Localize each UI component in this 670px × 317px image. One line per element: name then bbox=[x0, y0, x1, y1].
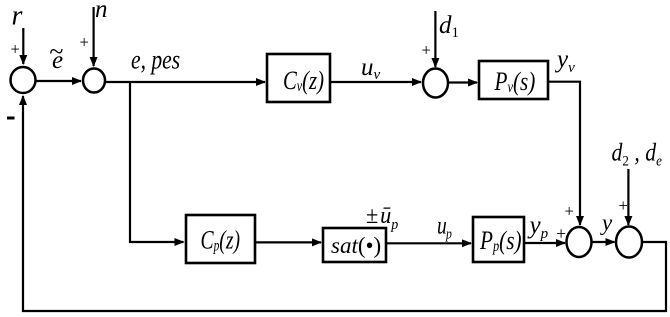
summing junction S1 bbox=[11, 67, 36, 93]
feedback wire from S5 around bottom back up into S1 bbox=[23, 96, 666, 311]
svg-text:Pp(s): Pp(s) bbox=[479, 227, 521, 256]
svg-text:e, pes: e, pes bbox=[131, 45, 180, 75]
wire S1 to S2 bbox=[36, 80, 81, 82]
svg-text:+: + bbox=[556, 224, 566, 244]
svg-text:d2 , de: d2 , de bbox=[612, 139, 662, 170]
wire n input bbox=[92, 7, 94, 66]
summing junction S3 bbox=[423, 69, 448, 98]
svg-text:+: + bbox=[422, 41, 431, 60]
svg-text:+: + bbox=[619, 196, 628, 215]
svg-text:+: + bbox=[80, 33, 89, 52]
wire Pv right then down into S4 bbox=[549, 82, 581, 225]
svg-text:~: ~ bbox=[49, 37, 63, 66]
block Cv bbox=[267, 54, 330, 102]
wire Cv to S3 bbox=[330, 81, 421, 83]
svg-text:r: r bbox=[12, 1, 23, 32]
summing junction S4 bbox=[567, 227, 592, 257]
summing junction S2 bbox=[83, 69, 105, 93]
block Pv bbox=[479, 61, 548, 99]
wire S2 to block Cv (with branch node at x=130) bbox=[105, 81, 265, 83]
block Pp bbox=[473, 217, 524, 262]
block sat bbox=[323, 228, 386, 262]
svg-text:n: n bbox=[95, 0, 108, 23]
svg-text:Cv(z): Cv(z) bbox=[283, 67, 324, 96]
minus sign at S1 (feedback input) bbox=[7, 117, 15, 120]
wire r input bbox=[22, 28, 24, 64]
wire sat to block Pp bbox=[386, 242, 471, 244]
block Cp bbox=[186, 215, 255, 263]
svg-text:+: + bbox=[11, 40, 20, 59]
svg-text:Cp(z): Cp(z) bbox=[201, 226, 241, 256]
svg-text:uv: uv bbox=[361, 54, 381, 83]
svg-text:y: y bbox=[600, 210, 613, 235]
wire Pp to S4 bbox=[524, 242, 565, 244]
svg-text:Pv(s): Pv(s) bbox=[494, 68, 536, 97]
svg-text:sat(•): sat(•) bbox=[331, 233, 381, 258]
wire S3 to block Pv bbox=[448, 81, 477, 83]
svg-text:up: up bbox=[437, 211, 452, 242]
svg-text:d1: d1 bbox=[439, 12, 459, 41]
svg-text:+: + bbox=[565, 202, 574, 221]
wire d2 input bbox=[627, 169, 629, 225]
wire d1 input bbox=[434, 11, 436, 67]
wire branch from e,pes down to block Cp bbox=[130, 82, 184, 242]
wire S4 to S5 bbox=[592, 241, 615, 243]
wire Cp to sat block bbox=[255, 241, 321, 243]
svg-text:yv: yv bbox=[554, 46, 575, 76]
summing junction S5 bbox=[616, 227, 642, 258]
svg-text:yp: yp bbox=[527, 212, 549, 242]
